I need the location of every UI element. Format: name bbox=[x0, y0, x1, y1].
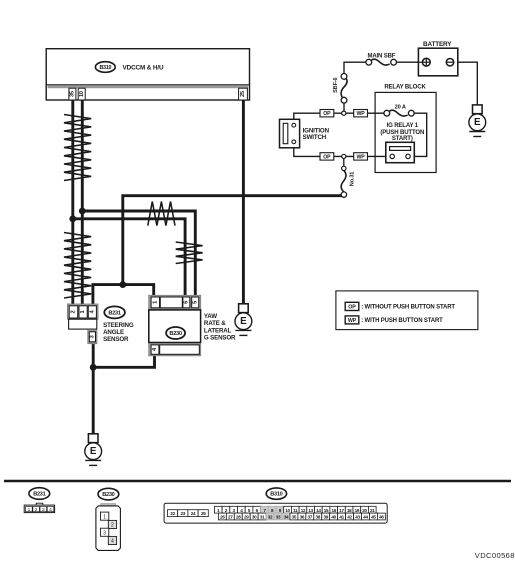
switch SW1 ignition switch bbox=[280, 119, 330, 148]
svg-text:36: 36 bbox=[300, 515, 305, 520]
pin 35 of B310 bbox=[69, 88, 76, 100]
svg-text:25: 25 bbox=[201, 511, 206, 516]
svg-text:VDC00568: VDC00568 bbox=[475, 551, 515, 560]
svg-text:35: 35 bbox=[70, 91, 76, 97]
wire W-C (B231 pin4 - node B - B230 pin1) bbox=[93, 285, 154, 306]
svg-text:START): START) bbox=[392, 136, 413, 142]
battery BAT1 bbox=[418, 41, 457, 76]
svg-text:22: 22 bbox=[170, 511, 175, 516]
svg-text:5: 5 bbox=[192, 301, 198, 304]
svg-text:: WITH PUSH BUTTON START: : WITH PUSH BUTTON START bbox=[361, 318, 443, 324]
svg-text:13: 13 bbox=[308, 508, 313, 513]
relay K1 IG RELAY 1 (PUSH BUTTON START) bbox=[380, 123, 424, 163]
svg-text:30: 30 bbox=[252, 515, 257, 520]
svg-text:16: 16 bbox=[331, 508, 336, 513]
ground E (battery) bbox=[469, 105, 486, 137]
svg-text:4: 4 bbox=[49, 507, 52, 513]
svg-text:14: 14 bbox=[316, 508, 321, 513]
svg-text:10: 10 bbox=[285, 508, 290, 513]
svg-text:11: 11 bbox=[293, 508, 298, 513]
svg-text:20: 20 bbox=[362, 508, 367, 513]
svg-text:WP: WP bbox=[357, 111, 366, 117]
svg-text:WP: WP bbox=[348, 318, 357, 324]
svg-text:1: 1 bbox=[28, 507, 31, 513]
svg-text:10: 10 bbox=[79, 91, 85, 97]
svg-text:46: 46 bbox=[379, 515, 384, 520]
label YAW RATE &amp; LATERAL G SENSOR bbox=[204, 313, 236, 341]
wire W-O (20A fuse to relay contact) bbox=[410, 113, 427, 156]
svg-text:12: 12 bbox=[301, 508, 306, 513]
svg-text:19: 19 bbox=[355, 508, 360, 513]
fuse MAIN SBF bbox=[366, 54, 397, 66]
wire W-K (ignition switch row 1) bbox=[294, 113, 387, 123]
wire W-H (fuse to battery) bbox=[396, 61, 418, 63]
svg-text:20 A: 20 A bbox=[395, 104, 406, 110]
svg-text:1: 1 bbox=[80, 310, 86, 313]
svg-text:OP: OP bbox=[323, 154, 331, 160]
pin 25 of B310 bbox=[239, 88, 248, 100]
wire W-B2 (junction to B230 pin5) bbox=[82, 211, 195, 298]
svg-text:35: 35 bbox=[292, 515, 297, 520]
svg-text:42: 42 bbox=[347, 515, 352, 520]
svg-text:2: 2 bbox=[111, 523, 114, 529]
svg-text:YAW: YAW bbox=[204, 313, 217, 320]
junction on wire B bbox=[79, 208, 86, 215]
svg-text:2: 2 bbox=[71, 310, 77, 313]
sensor B230 YAW RATE &amp; LATERAL G SENSOR bbox=[149, 295, 201, 356]
svg-text:2: 2 bbox=[35, 507, 38, 513]
svg-text:27: 27 bbox=[228, 515, 233, 520]
junction connector (row1) bbox=[342, 111, 346, 115]
junction on wire A bbox=[69, 215, 76, 222]
wire W-A (B310 pin35 to B231 pin2, twisted) bbox=[71, 99, 74, 306]
wire W-E (B231 pin3 to ground E) bbox=[92, 342, 95, 434]
ground E (VDCCM) bbox=[235, 304, 252, 336]
connector view B230 bbox=[96, 488, 121, 550]
svg-text:BATTERY: BATTERY bbox=[423, 41, 452, 48]
svg-text:29: 29 bbox=[244, 515, 249, 520]
svg-text:6: 6 bbox=[184, 301, 190, 304]
svg-text:LATERAL: LATERAL bbox=[204, 327, 232, 334]
relay block enclosure bbox=[375, 85, 436, 173]
svg-text:28: 28 bbox=[236, 515, 241, 520]
svg-text:1: 1 bbox=[153, 301, 159, 304]
svg-text:WP: WP bbox=[357, 154, 366, 160]
wire W-N (battery - to ground) bbox=[458, 62, 478, 105]
wire W-D (B310 pin25 to ground E) bbox=[242, 99, 245, 304]
connector view B310 bbox=[164, 488, 387, 523]
svg-text:VDCCM & H/U: VDCCM & H/U bbox=[123, 65, 164, 72]
pin 10 of B310 bbox=[78, 88, 85, 100]
fuse F1 20A bbox=[384, 104, 414, 116]
svg-text:SBF-6: SBF-6 bbox=[333, 77, 339, 92]
ground E (steering sensor) bbox=[85, 434, 102, 466]
fuse SBF-6 bbox=[333, 74, 347, 104]
svg-text:IG RELAY 1: IG RELAY 1 bbox=[387, 123, 419, 129]
svg-text:44: 44 bbox=[363, 515, 368, 520]
svg-text:3: 3 bbox=[90, 335, 96, 338]
wire W-F (B230 pin4 to ground junction) bbox=[93, 355, 154, 367]
svg-text:(PUSH BUTTON: (PUSH BUTTON bbox=[380, 130, 424, 136]
wire W-G (MAIN SBF to battery +) bbox=[344, 62, 366, 74]
sensor B231 STEERING ANGLE SENSOR label bbox=[103, 306, 134, 343]
svg-text:21: 21 bbox=[370, 508, 375, 513]
twisted-pair mark 2 (wires A/B lower) bbox=[64, 233, 91, 299]
svg-text:23: 23 bbox=[181, 511, 186, 516]
svg-text:32: 32 bbox=[268, 515, 273, 520]
svg-text:17: 17 bbox=[339, 508, 344, 513]
svg-text:4: 4 bbox=[111, 539, 114, 545]
separator line bbox=[4, 480, 511, 483]
svg-text:B231: B231 bbox=[33, 492, 45, 498]
svg-text:E: E bbox=[474, 117, 481, 128]
svg-text:B310: B310 bbox=[99, 65, 111, 71]
option tag WP (row2) bbox=[354, 153, 368, 161]
svg-text:OP: OP bbox=[348, 305, 356, 311]
svg-text:E: E bbox=[90, 446, 97, 457]
junction connector (row2) bbox=[342, 154, 346, 158]
wire W-A2 (junction to B230 pin6) bbox=[73, 219, 185, 298]
junction node B bbox=[119, 281, 126, 288]
svg-text:RATE &: RATE & bbox=[204, 320, 226, 327]
svg-text:24: 24 bbox=[191, 511, 196, 516]
svg-text:38: 38 bbox=[316, 515, 321, 520]
svg-text:G SENSOR: G SENSOR bbox=[204, 334, 236, 341]
svg-text:33: 33 bbox=[276, 515, 281, 520]
wire W-J (SBF-6 to junction) bbox=[343, 103, 345, 111]
svg-text:26: 26 bbox=[220, 515, 225, 520]
wire W-M (junction to No.31) bbox=[343, 156, 345, 166]
svg-text:37: 37 bbox=[308, 515, 313, 520]
connector view B231 bbox=[24, 488, 54, 513]
svg-text:25: 25 bbox=[240, 91, 246, 97]
twisted-pair mark 1 (wires A/B upper) bbox=[64, 115, 91, 181]
svg-text:31: 31 bbox=[260, 515, 265, 520]
svg-text:45: 45 bbox=[371, 515, 376, 520]
twisted-pair mark 4 (vertical pair to B230) bbox=[176, 242, 203, 264]
svg-text:15: 15 bbox=[324, 508, 329, 513]
svg-text:43: 43 bbox=[355, 515, 360, 520]
svg-text:No.31: No.31 bbox=[349, 172, 355, 187]
wire W-L (ignition switch row 2) bbox=[294, 144, 390, 157]
svg-text:41: 41 bbox=[339, 515, 344, 520]
svg-text:18: 18 bbox=[347, 508, 352, 513]
svg-text:B230: B230 bbox=[169, 331, 182, 337]
svg-text:B310: B310 bbox=[270, 492, 282, 498]
svg-text:39: 39 bbox=[323, 515, 328, 520]
svg-text:ANGLE: ANGLE bbox=[103, 329, 124, 336]
joint connector No.31 bbox=[341, 166, 355, 197]
svg-text:3: 3 bbox=[42, 507, 45, 513]
svg-text:40: 40 bbox=[331, 515, 336, 520]
svg-text:34: 34 bbox=[284, 515, 289, 520]
connector B231 pins (2,1,4,3) bbox=[67, 304, 98, 344]
svg-text:OP: OP bbox=[323, 111, 331, 117]
option tag OP (row1) bbox=[320, 110, 334, 118]
wire W-B (B310 pin10 to B231 pin1, twisted) bbox=[81, 99, 84, 306]
svg-text:SWITCH: SWITCH bbox=[303, 134, 327, 141]
IC U1 connector B310 VDCCM &amp; H/U bbox=[46, 49, 249, 100]
option tag OP (row2) bbox=[320, 153, 334, 161]
wire W-BUS (node B to connector No.31) bbox=[123, 196, 344, 285]
svg-text:B230: B230 bbox=[102, 492, 114, 498]
svg-text:1: 1 bbox=[103, 514, 106, 520]
option tag WP (row1) bbox=[354, 110, 368, 118]
svg-text:SENSOR: SENSOR bbox=[103, 336, 129, 343]
svg-text:3: 3 bbox=[103, 530, 106, 536]
svg-text:E: E bbox=[240, 316, 247, 327]
legend OP/WP bbox=[336, 291, 478, 330]
svg-text:: WITHOUT PUSH BUTTON START: : WITHOUT PUSH BUTTON START bbox=[361, 305, 455, 311]
svg-text:MAIN SBF: MAIN SBF bbox=[367, 54, 395, 60]
svg-text:STEERING: STEERING bbox=[103, 322, 134, 329]
svg-text:RELAY BLOCK: RELAY BLOCK bbox=[384, 85, 426, 91]
twisted-pair mark 3 (horizontal pair) bbox=[148, 202, 175, 226]
svg-text:B231: B231 bbox=[108, 311, 121, 317]
junction node C bbox=[90, 364, 97, 371]
